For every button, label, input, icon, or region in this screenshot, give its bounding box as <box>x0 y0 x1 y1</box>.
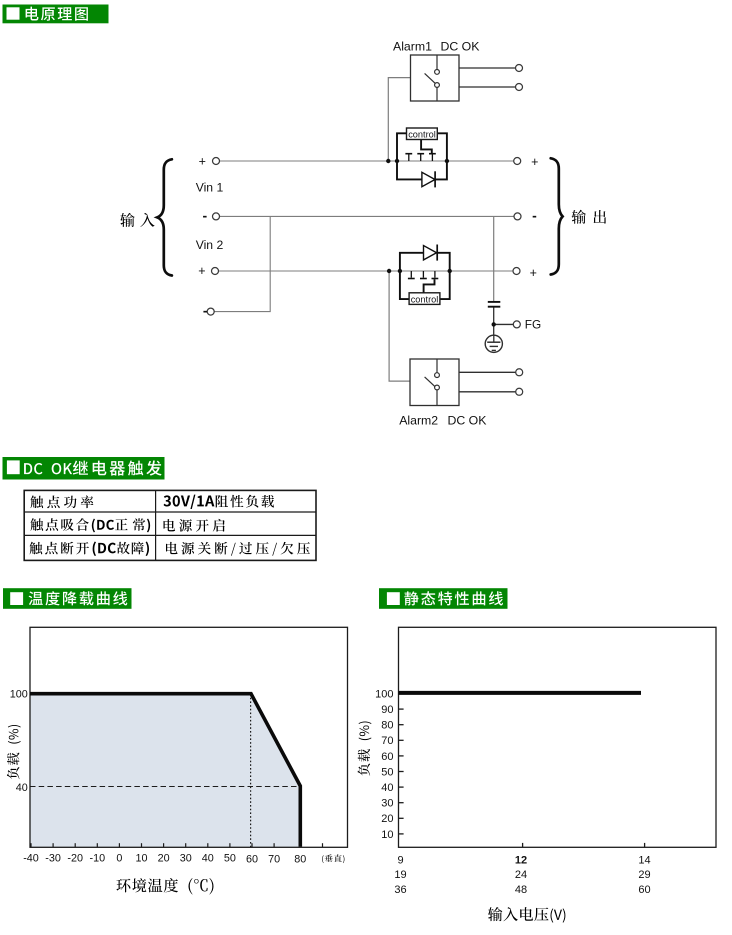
svg-text:100: 100 <box>375 688 393 700</box>
svg-text:80: 80 <box>294 853 306 865</box>
derating curve <box>30 694 300 847</box>
svg-text:-10: -10 <box>89 852 105 864</box>
wire Alarm2 contact output b <box>459 391 516 393</box>
svg-text:control: control <box>411 295 439 305</box>
terminal Vin2+ <box>212 268 219 275</box>
svg-text:-30: -30 <box>45 852 61 864</box>
terminal Alarm2 b <box>516 388 523 395</box>
y axis title 负载 (%) <box>7 725 21 779</box>
terminal Vin1- <box>213 213 220 220</box>
diode D2 (bypass, lower stage) <box>400 245 450 272</box>
control block U2 wiring <box>400 271 450 299</box>
wire FG branch <box>494 323 514 325</box>
svg-text:-20: -20 <box>67 852 83 864</box>
svg-text:36: 36 <box>394 884 406 896</box>
terminal Vin2- <box>207 308 214 315</box>
relay contact Alarm1 DC OK <box>411 55 460 101</box>
section header: 静态特性曲线 (static characteristics) <box>379 588 508 609</box>
x axis note (垂直) <box>322 854 344 863</box>
wire Alarm1 contact output b <box>459 86 516 88</box>
wire Alarm2 contact output a <box>459 371 516 373</box>
svg-text:10: 10 <box>135 852 147 864</box>
svg-text:DC OK: DC OK <box>441 40 481 54</box>
wire Vin2- link to common minus <box>214 216 270 311</box>
table cell 30V/1A阻性负载 <box>164 495 275 509</box>
derating dashed 40% line <box>30 786 300 788</box>
derating chart frame <box>30 627 348 847</box>
brace output group <box>551 158 563 274</box>
section header: DC OK继电器触发 <box>3 457 165 480</box>
x axis title 环境温度 (℃) <box>116 878 213 895</box>
svg-text:90: 90 <box>381 704 393 716</box>
terminal output + (upper) <box>514 158 521 165</box>
label 输入 (input) <box>120 213 154 227</box>
static chart y ticks <box>399 694 645 848</box>
table cell 触点吸合(DC正常) <box>30 518 150 532</box>
svg-text:-: - <box>203 302 208 318</box>
table cell 电源关断/过压/欠压 <box>166 542 310 556</box>
svg-text:70: 70 <box>381 735 393 747</box>
control block U1 box <box>407 128 438 140</box>
wire Vin1+ input line <box>219 160 388 162</box>
svg-text:30: 30 <box>180 852 192 864</box>
table cell 触点功率 <box>30 495 93 508</box>
static chart frame <box>399 627 717 847</box>
diode D1 (bypass, upper stage) <box>397 161 447 187</box>
terminal output + (lower) <box>513 268 520 275</box>
table DC OK relay trigger spec <box>24 490 316 560</box>
brace input group <box>157 159 172 275</box>
node C (upper block right) <box>445 159 449 163</box>
table cell 触点断开(DC故障) <box>30 542 150 557</box>
wire minus line to capacitor C1 <box>493 216 495 301</box>
static 100% load line <box>399 691 642 695</box>
table cell 电源开启 <box>164 519 225 532</box>
terminal FG <box>513 321 520 328</box>
svg-text:14: 14 <box>638 854 650 866</box>
terminal Alarm1 b <box>516 84 523 91</box>
svg-text:Vin 2: Vin 2 <box>196 238 224 252</box>
svg-text:+: + <box>530 266 537 280</box>
svg-text:70: 70 <box>268 853 280 865</box>
svg-text:19: 19 <box>394 869 406 881</box>
capacitor C1 (output to FG) <box>488 302 501 307</box>
svg-text:50: 50 <box>224 852 236 864</box>
svg-text:Vin 1: Vin 1 <box>196 180 224 194</box>
svg-text:9: 9 <box>397 854 403 866</box>
terminal Vin1+ <box>213 158 220 165</box>
wire to Alarm1 relay coil <box>388 78 410 161</box>
svg-text:FG: FG <box>525 318 541 332</box>
x labels input voltage rows <box>394 854 650 896</box>
svg-text:60: 60 <box>246 853 258 865</box>
svg-text:24: 24 <box>515 869 527 881</box>
svg-text:20: 20 <box>158 852 170 864</box>
svg-text:Alarm2: Alarm2 <box>399 414 438 428</box>
svg-text:Alarm1: Alarm1 <box>393 40 432 54</box>
svg-text:50: 50 <box>381 766 393 778</box>
MOSFET Q1 gates (paralleled pass FETs) <box>405 154 435 161</box>
wire to Alarm2 relay coil <box>389 271 410 381</box>
svg-text:12: 12 <box>515 854 527 866</box>
svg-text:60: 60 <box>638 884 650 896</box>
x axis title 输入电压(V) <box>488 907 566 923</box>
svg-text:+: + <box>531 155 538 169</box>
wire Vin- common line <box>219 215 514 217</box>
terminal Alarm1 a <box>516 65 523 72</box>
node D (Vin2+ / Alarm2 tap) <box>387 269 391 273</box>
svg-text:80: 80 <box>381 720 393 732</box>
wire Alarm1 contact output a <box>459 67 516 69</box>
section header: 温度降载曲线 (derating curve) <box>3 588 132 609</box>
svg-text:40: 40 <box>16 782 28 794</box>
terminal Alarm2 a <box>516 369 523 376</box>
svg-text:+: + <box>198 264 205 278</box>
wire capacitor C1 to FG node <box>493 307 495 336</box>
control block U2 box <box>409 293 440 305</box>
node A (Vin1+ / Alarm1 tap) <box>386 159 390 163</box>
svg-text:30: 30 <box>381 798 393 810</box>
svg-text:+: + <box>199 154 206 168</box>
node G (FG junction) <box>492 322 496 326</box>
derating chart x ticks <box>31 843 323 847</box>
svg-text:10: 10 <box>381 829 393 841</box>
svg-text:-40: -40 <box>23 852 39 864</box>
svg-text:control: control <box>408 130 436 140</box>
section header: 电原理图 (power schematic) <box>3 5 109 24</box>
svg-text:20: 20 <box>381 813 393 825</box>
svg-text:60: 60 <box>381 751 393 763</box>
y labels 100..10 <box>375 688 393 840</box>
y axis title 负载 (%) (right chart) <box>358 721 372 775</box>
earth ground symbol <box>485 335 502 352</box>
node E (lower block left) <box>398 269 402 273</box>
svg-text:100: 100 <box>10 689 28 701</box>
svg-text:29: 29 <box>638 869 650 881</box>
relay contact Alarm2 DC OK <box>410 359 459 406</box>
x axis labels <box>23 852 306 865</box>
wire Vin2+ line through lower ORing stage to output <box>218 270 513 272</box>
svg-text:40: 40 <box>381 782 393 794</box>
terminal output - <box>514 213 521 220</box>
label 输出 (output) <box>572 210 607 224</box>
derating chart plot area fill <box>30 694 300 847</box>
svg-text:DC OK: DC OK <box>448 414 488 428</box>
node B (upper block left) <box>395 159 399 163</box>
svg-text:0: 0 <box>116 852 122 864</box>
control block U1 wiring <box>397 133 447 161</box>
wire Vin1+ through ORing stage to output <box>388 160 514 162</box>
svg-text:-: - <box>202 207 207 223</box>
derating dotted 60C line <box>250 694 252 847</box>
node F (lower block right) <box>448 269 452 273</box>
svg-text:40: 40 <box>202 852 214 864</box>
svg-text:48: 48 <box>515 884 527 896</box>
svg-text:-: - <box>532 208 537 224</box>
MOSFET Q2 gates (paralleled pass FETs) <box>408 271 438 279</box>
